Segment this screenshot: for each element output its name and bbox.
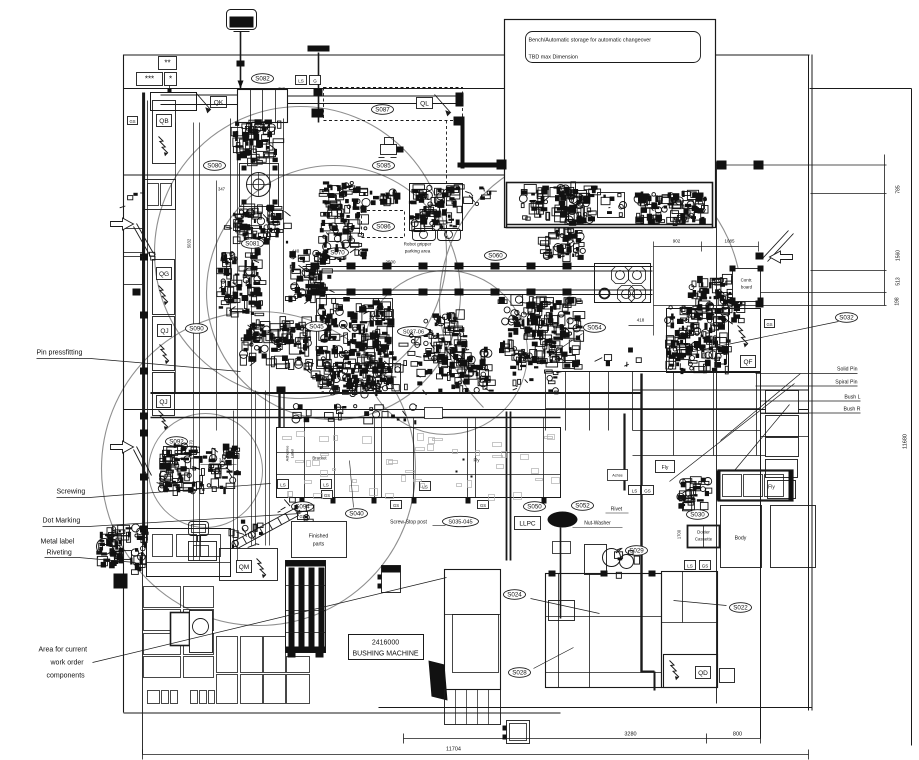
svg-text:LLPC: LLPC [519, 520, 536, 527]
svg-text:QD: QD [698, 670, 708, 677]
right grid verticals [632, 372, 634, 431]
S040 machines above fence [325, 404, 417, 425]
svg-text:G: G [313, 78, 317, 83]
station S081 [242, 239, 264, 249]
QM room [220, 549, 278, 581]
asterisk box *** [137, 73, 163, 86]
LLPC box [515, 517, 541, 530]
dimension line 3280/800 [404, 738, 761, 740]
contr board box [733, 269, 761, 302]
svg-text:LS: LS [687, 563, 693, 568]
black pads on tick line [717, 161, 727, 170]
ghost content in fence [283, 432, 560, 501]
svg-text:1700: 1700 [677, 529, 682, 539]
svg-text:5032: 5032 [187, 238, 192, 248]
thick left wall [143, 93, 145, 546]
LS GS boxes bottom [685, 561, 696, 570]
ring pallet [600, 289, 610, 299]
box with circle [190, 611, 213, 653]
floor line y=174 [124, 174, 505, 176]
right double wall x=808 [808, 55, 810, 711]
svg-text:S045: S045 [309, 324, 324, 331]
fly box mid [656, 461, 675, 473]
thick vertical x641 [640, 374, 642, 673]
svg-text:GS: GS [702, 563, 709, 568]
work order center grid row 2 [217, 675, 238, 704]
thick elbow to QD [642, 671, 655, 673]
white arrow pointer upper [111, 218, 134, 230]
lightning in QD room [670, 661, 679, 681]
long boundary vertical x716 [716, 162, 718, 704]
QF label box [741, 356, 756, 368]
svg-text:S054: S054 [587, 325, 602, 332]
svg-text:Fly: Fly [662, 465, 669, 471]
fence verticals [304, 428, 306, 498]
svg-text:11680: 11680 [903, 434, 909, 449]
S032 machine [667, 309, 729, 373]
left inner wall x=142 full height [142, 93, 144, 755]
svg-text:S040: S040 [349, 511, 364, 518]
robot changeover room [507, 183, 713, 228]
L-bracket wall [461, 121, 465, 169]
S037 cluster upper [423, 310, 468, 363]
reach circle around S040 cell [207, 166, 461, 420]
svg-text:S032: S032 [839, 315, 854, 322]
svg-text:Solid Pin: Solid Pin [837, 367, 858, 373]
station S070 [327, 248, 349, 258]
small cabinet mid [382, 566, 401, 593]
svg-text:198: 198 [895, 297, 901, 306]
lightning in QG room [159, 286, 168, 306]
striped pallet stack [286, 561, 326, 653]
svg-text:GS: GS [766, 322, 772, 327]
svg-text:Label: Label [291, 449, 295, 458]
svg-text:**: ** [164, 58, 170, 67]
lightning in QJ room [160, 345, 169, 365]
S040 lower box [334, 364, 401, 394]
svg-text:Body: Body [735, 536, 747, 542]
lightning in QB room [159, 137, 168, 157]
conveyor end robot [687, 274, 745, 323]
S040 tower machine [317, 299, 393, 369]
S028 left machine [445, 570, 501, 690]
S060 robot arm [464, 187, 497, 206]
svg-text:LS: LS [632, 488, 638, 493]
S054 main cluster [498, 295, 585, 370]
asterisk box ** [159, 57, 177, 70]
svg-text:S087: S087 [375, 107, 390, 114]
station S022 [730, 603, 752, 613]
robot B in room [550, 182, 601, 226]
svg-text:800: 800 [733, 732, 742, 738]
svg-text:LS: LS [280, 482, 286, 487]
svg-text:S052: S052 [575, 503, 590, 510]
svg-text:GS: GS [129, 119, 135, 124]
station S045 [306, 322, 328, 332]
station S028 [509, 668, 531, 678]
riveting machine block [147, 529, 231, 577]
second pole with crossbar [318, 53, 320, 123]
svg-text:S082: S082 [255, 76, 270, 83]
GS box below fence 2 [478, 501, 489, 509]
S092 robot base plates [164, 447, 197, 455]
overhead monitor on pole [227, 10, 257, 32]
svg-text:Metal label: Metal label [41, 539, 75, 546]
svg-text:3280: 3280 [624, 732, 636, 738]
svg-text:Nut-Washer: Nut-Washer [584, 521, 611, 527]
strut lines upper [134, 227, 151, 257]
second QJ room [153, 373, 175, 416]
diagonal conveyor end blob [229, 520, 263, 549]
svg-text:440: 440 [292, 249, 300, 254]
wall machine block [144, 180, 176, 210]
second QJ label box [157, 396, 171, 408]
dark hatched blob [429, 661, 448, 701]
QD attachment [720, 669, 735, 683]
QK label box [211, 97, 227, 108]
svg-text:S090: S090 [189, 326, 204, 333]
thick vertical pair x506 [506, 412, 508, 561]
bench/automatic storage big box [505, 20, 716, 228]
reach circle around S092 robot [149, 414, 263, 528]
S080 machine rails [230, 119, 232, 313]
svg-text:BUSHING MACHINE: BUSHING MACHINE [352, 651, 418, 658]
svg-text:TBD max Dimension: TBD max Dimension [529, 55, 578, 61]
svg-text:GS: GS [480, 503, 486, 508]
svg-text:Bush L: Bush L [844, 395, 860, 401]
robot D in room [634, 190, 708, 225]
svg-text:QF: QF [743, 359, 752, 366]
svg-text:S030: S030 [690, 512, 705, 519]
svg-text:Bench/Automatic storage for au: Bench/Automatic storage for automatic ch… [529, 38, 652, 44]
lightning in second QJ room [159, 411, 168, 431]
GS box near QF [765, 320, 775, 328]
svg-text:Dokier: Dokier [697, 530, 710, 535]
fly cassette machine [719, 471, 793, 501]
svg-text:S085: S085 [376, 163, 391, 170]
achse box [608, 470, 628, 481]
QB room [153, 101, 176, 164]
S070 tower machine [319, 181, 370, 259]
svg-text:LS: LS [298, 78, 304, 83]
conveyor pads [311, 263, 320, 270]
overhead rail beam [288, 95, 461, 97]
left extension grid verticals [545, 372, 547, 431]
dashed vertical line [446, 121, 448, 238]
svg-text:670: 670 [189, 439, 194, 447]
svg-text:11704: 11704 [446, 747, 461, 753]
S080 lower robot [235, 204, 283, 245]
dimension 902/1085 [654, 246, 759, 248]
station S037-06 [398, 327, 430, 337]
GS box top-left [128, 117, 138, 125]
svg-text:S080: S080 [207, 163, 222, 170]
S054 robot above [538, 228, 583, 262]
LS box near S082 [296, 76, 307, 85]
S080 rotary table [240, 164, 279, 207]
dots in fence [456, 471, 458, 473]
svg-text:Bush R: Bush R [843, 407, 860, 413]
station S050 [524, 502, 546, 512]
S040 small cluster [298, 357, 331, 378]
station S029 [626, 546, 648, 556]
svg-text:GS: GS [393, 503, 399, 508]
tiny squares bottom row [148, 691, 160, 704]
svg-text:parts: parts [313, 542, 325, 548]
station S035-045 [443, 516, 479, 526]
right grid horizontals [546, 408, 761, 410]
station S090 [186, 324, 208, 334]
svg-text:Dot Marking: Dot Marking [43, 518, 81, 525]
LS GS boxes right [629, 486, 641, 495]
svg-text:785: 785 [896, 185, 902, 194]
svg-text:GS: GS [644, 488, 651, 493]
svg-text:Fly: Fly [474, 458, 481, 463]
station S032 [836, 313, 858, 323]
work order center grid row 1 [217, 637, 238, 673]
dashed storage outline S087 [324, 88, 463, 121]
svg-text:2416000: 2416000 [372, 640, 399, 647]
svg-text:Contr.: Contr. [741, 278, 753, 283]
svg-text:347: 347 [218, 187, 226, 192]
upper floor line y=88 [124, 88, 505, 90]
svg-text:QJ: QJ [160, 328, 168, 335]
right bottom machine [662, 572, 718, 688]
svg-text:Spiral Pin: Spiral Pin [835, 380, 857, 386]
hatch arrow near QK [197, 94, 211, 113]
S030 robot [677, 477, 712, 511]
right zone line y=371 [546, 371, 761, 373]
svg-text:Robot gripper: Robot gripper [404, 242, 432, 247]
outer frame left wall [123, 55, 125, 713]
svg-text:Achse: Achse [612, 474, 623, 478]
QJ room [153, 317, 175, 371]
QF room [729, 309, 761, 373]
left small cabinets [124, 229, 143, 253]
pads on center machine top [549, 571, 556, 577]
svg-text:QM: QM [239, 564, 249, 571]
rail to S082 box [161, 94, 238, 96]
right border line [911, 89, 913, 746]
S024 head machine [548, 512, 578, 528]
S082 machine box on rail [238, 90, 288, 123]
aisle line thick y=392 [151, 392, 641, 394]
diagonal conveyor [234, 509, 299, 549]
svg-text:S028: S028 [512, 670, 527, 677]
marking display [189, 522, 209, 536]
S085 printer machine [379, 138, 404, 158]
QG label box [157, 268, 172, 280]
svg-text:GS: GS [324, 493, 330, 498]
svg-text:Area for current: Area for current [39, 647, 88, 654]
black square below riveting [114, 574, 128, 589]
GS box fence 2b [322, 491, 333, 499]
QD room [664, 655, 718, 688]
corridor vertical lines [175, 123, 177, 393]
reach circle around S037 cell [364, 271, 528, 435]
svg-text:Screw-Stop post: Screw-Stop post [390, 520, 427, 526]
thick wall stub left of fence [278, 389, 280, 428]
svg-text:LS: LS [323, 482, 329, 487]
S037 cluster lower [437, 347, 496, 394]
asterisk box * [165, 73, 177, 86]
right dimension line with ticks [884, 155, 886, 306]
svg-text:Adhesive: Adhesive [286, 446, 290, 462]
robot A in room [519, 185, 549, 221]
QL label box [417, 98, 433, 109]
svg-text:S081: S081 [245, 241, 260, 248]
reach circle around S081 cell [155, 107, 447, 399]
dimension line 11704 [143, 754, 809, 756]
white arrow pointing left [770, 251, 793, 263]
S040 left cluster [240, 317, 314, 372]
station S094 [292, 502, 314, 512]
LS box fence 1 [278, 480, 289, 489]
thick bordered box [171, 613, 190, 646]
storage box 5 [768, 481, 796, 499]
aisle line y=417 [151, 417, 561, 419]
station S082 [252, 74, 274, 84]
S080 top robot [231, 119, 284, 165]
center bottom machine [546, 574, 662, 688]
svg-text:1560: 1560 [896, 250, 902, 261]
svg-text:*: * [169, 74, 172, 83]
machines above conveyor left [298, 248, 356, 263]
S037 bridge cluster [392, 332, 435, 395]
svg-text:parking area: parking area [405, 249, 431, 254]
svg-text:board: board [741, 285, 753, 290]
small box bottom [507, 721, 530, 744]
station S024 [504, 590, 526, 600]
right zone line y=389 [633, 389, 809, 391]
svg-text:QG: QG [159, 271, 169, 278]
station S030 [687, 510, 709, 520]
S037 leader [433, 336, 453, 345]
storage box solid pin [766, 391, 799, 414]
svg-text:418: 418 [637, 318, 645, 323]
svg-text:Fly: Fly [768, 485, 775, 491]
QG room [153, 260, 175, 315]
QB label box [157, 115, 172, 127]
marking machine box [189, 542, 217, 561]
S086 gripper bar [370, 189, 401, 206]
svg-text:S050: S050 [527, 504, 542, 511]
svg-text:513: 513 [896, 277, 902, 286]
svg-text:902: 902 [673, 239, 681, 244]
bench storage note rounded box [526, 32, 701, 63]
S060 feeder machine [410, 184, 463, 231]
aisle line y=409 [124, 409, 809, 411]
station S092 [166, 437, 188, 447]
svg-text:Bracket: Bracket [312, 456, 327, 461]
body box [721, 506, 762, 568]
S032 leader [689, 322, 839, 353]
main conveyor rails [303, 266, 653, 268]
S092 robot [157, 443, 241, 496]
screw fence outer [277, 428, 561, 498]
outer frame top edge left segment [124, 54, 505, 56]
outer frame top edge right segment [716, 54, 810, 56]
reach circle around screwing cell [102, 312, 416, 626]
svg-text:Rivet: Rivet [611, 507, 623, 513]
lightning in QF room [738, 326, 749, 348]
svg-text:S086: S086 [376, 224, 391, 231]
station S054 [584, 323, 606, 333]
machine C in room [598, 193, 625, 218]
top-left rail segment [151, 93, 197, 111]
storage box spiral pin [766, 416, 799, 437]
LS box fence 2 [321, 480, 332, 489]
svg-text:S029: S029 [629, 548, 644, 555]
black squares on x760 wall [756, 253, 764, 260]
GS box near S082 [310, 76, 321, 85]
pallet rotation table [595, 264, 651, 303]
station S052 [572, 501, 594, 511]
svg-text:QL: QL [420, 100, 429, 107]
riveting rotary machine [96, 524, 148, 570]
station S085 [373, 161, 395, 171]
work order grid column A [144, 587, 181, 608]
machines right of S054 [595, 348, 642, 367]
svg-text:S024: S024 [507, 592, 522, 599]
GS box below fence 1 [391, 501, 402, 509]
conveyor head machine [285, 251, 334, 304]
svg-text:S060: S060 [488, 253, 503, 260]
svg-text:work order: work order [50, 660, 85, 667]
S094 blob [278, 498, 314, 524]
finished parts box [292, 522, 347, 558]
lightning in QM room [257, 559, 266, 579]
svg-text:Pin pressfitting: Pin pressfitting [37, 350, 83, 357]
svg-text:components: components [47, 673, 86, 680]
thick vertical x624 [623, 414, 625, 491]
S081 cluster [224, 208, 291, 243]
robot arm reaching down to conveyor [554, 228, 585, 254]
svg-text:Cassette: Cassette [695, 537, 713, 542]
station S087 [372, 105, 394, 115]
white arrow pointer lower [111, 441, 134, 453]
small rect above fence [425, 408, 443, 419]
small riveting bits [132, 564, 146, 575]
gripper parking pallets [413, 229, 436, 241]
left mid robot cluster [217, 248, 266, 317]
svg-text:1085: 1085 [724, 239, 735, 244]
hatch arrow near QL [435, 95, 451, 116]
strut lines lower [134, 450, 149, 479]
QM label box [237, 561, 252, 573]
station S040 lower [346, 509, 368, 519]
pallet below left machine [445, 690, 501, 725]
station S080 [204, 161, 226, 171]
svg-text:***: *** [145, 74, 154, 83]
S054 lower bits [513, 370, 562, 394]
LS box fence 3 [420, 482, 431, 491]
GS box S094 [298, 512, 308, 520]
empty box right [771, 506, 816, 568]
S029 rollers [585, 545, 607, 575]
storage box bush R [766, 460, 798, 478]
svg-text:Riveting: Riveting [47, 550, 72, 557]
svg-text:S035-045: S035-045 [448, 520, 472, 526]
station S060 [485, 251, 507, 261]
fence row lines [277, 452, 561, 454]
svg-text:QB: QB [159, 118, 168, 125]
dokier cassette box [688, 526, 720, 548]
storage box bush L [766, 438, 799, 457]
bushing machine title box [349, 635, 424, 660]
work order grid column B [184, 587, 214, 608]
reach circle around S054/S060 cell [440, 150, 742, 407]
